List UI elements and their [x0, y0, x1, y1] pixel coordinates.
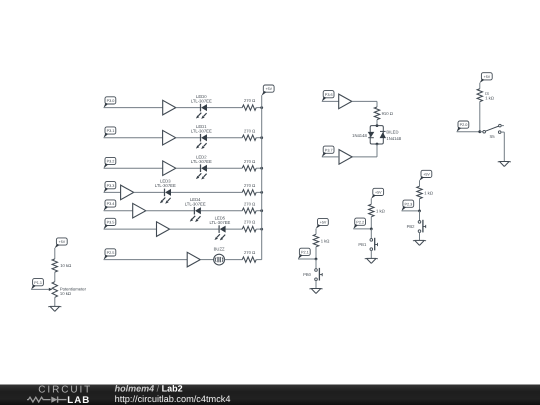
- svg-text:270 Ω: 270 Ω: [244, 159, 255, 164]
- svg-text:+5V: +5V: [423, 173, 430, 177]
- svg-text:BUZZ: BUZZ: [214, 246, 225, 251]
- svg-text:270 Ω: 270 Ω: [244, 220, 255, 225]
- svg-text:P2.3: P2.3: [404, 202, 412, 206]
- svg-text:270 Ω: 270 Ω: [244, 201, 255, 206]
- svg-text:LTL-307EE: LTL-307EE: [209, 220, 230, 225]
- svg-text:270 Ω: 270 Ω: [244, 250, 255, 255]
- svg-text:P3.3: P3.3: [107, 184, 115, 188]
- svg-text:1N4148: 1N4148: [386, 136, 401, 141]
- svg-text:holmem4 / Lab2: holmem4 / Lab2: [115, 383, 183, 393]
- svg-text:+5V: +5V: [266, 87, 273, 91]
- svg-text:P3.5: P3.5: [107, 221, 115, 225]
- svg-text:LTL-307EE: LTL-307EE: [155, 183, 176, 188]
- svg-text:P2.2: P2.2: [356, 220, 364, 224]
- svg-text:P3.7: P3.7: [325, 148, 333, 152]
- svg-text:+5V: +5V: [59, 240, 66, 244]
- svg-text:10 kΩ: 10 kΩ: [60, 263, 71, 268]
- svg-text:PB1: PB1: [358, 242, 367, 247]
- svg-text:PB0: PB0: [303, 272, 312, 277]
- svg-text:P3.2: P3.2: [107, 160, 115, 164]
- svg-text:P2.1: P2.1: [301, 250, 309, 254]
- svg-text:+5V: +5V: [320, 221, 327, 225]
- svg-text:CIRCUIT: CIRCUIT: [38, 385, 92, 396]
- svg-text:P3.1: P3.1: [107, 129, 115, 133]
- svg-text:910 Ω: 910 Ω: [382, 111, 393, 116]
- svg-text:P2.0: P2.0: [460, 123, 468, 127]
- svg-text:P3.0: P3.0: [107, 99, 115, 103]
- svg-text:1N4148: 1N4148: [352, 133, 367, 138]
- svg-text:http://circuitlab.com/c4tmck4: http://circuitlab.com/c4tmck4: [115, 394, 231, 404]
- svg-text:PB2: PB2: [407, 224, 416, 229]
- svg-text:LTL-307EE: LTL-307EE: [191, 159, 212, 164]
- svg-text:+5V: +5V: [375, 191, 382, 195]
- svg-text:270 Ω: 270 Ω: [244, 183, 255, 188]
- svg-text:P3.6: P3.6: [325, 93, 333, 97]
- svg-text:LTL-307EE: LTL-307EE: [185, 201, 206, 206]
- svg-text:P2.5: P2.5: [107, 251, 115, 255]
- svg-text:1 kΩ: 1 kΩ: [321, 239, 330, 244]
- svg-text:270 Ω: 270 Ω: [244, 98, 255, 103]
- svg-text:+5V: +5V: [484, 75, 491, 79]
- svg-text:LTL-307EE: LTL-307EE: [191, 98, 212, 103]
- svg-text:P3.4: P3.4: [107, 202, 115, 206]
- svg-text:10 kΩ: 10 kΩ: [60, 291, 71, 296]
- svg-text:P1.1: P1.1: [34, 281, 42, 285]
- svg-text:1 kΩ: 1 kΩ: [424, 191, 433, 196]
- svg-text:1 kΩ: 1 kΩ: [485, 96, 494, 101]
- svg-text:S5: S5: [489, 134, 495, 139]
- svg-text:BILED: BILED: [386, 130, 398, 135]
- svg-text:270 Ω: 270 Ω: [244, 128, 255, 133]
- svg-text:LAB: LAB: [67, 395, 90, 405]
- svg-text:LTL-307EE: LTL-307EE: [191, 128, 212, 133]
- svg-text:1 kΩ: 1 kΩ: [376, 209, 385, 214]
